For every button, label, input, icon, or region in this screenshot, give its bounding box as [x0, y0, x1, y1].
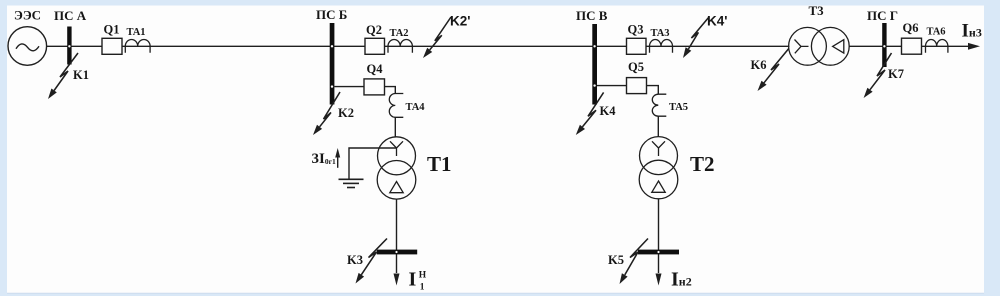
svg-text:TA5: TA5 — [669, 102, 688, 113]
svg-text:K4: K4 — [600, 104, 617, 118]
junction dot T2 load bar — [657, 251, 659, 253]
svg-text:TA4: TA4 — [406, 102, 426, 113]
load arrow IN3 head — [968, 43, 980, 50]
svg-text:Q3: Q3 — [628, 23, 644, 37]
breaker Q6 box — [902, 38, 922, 54]
junction dot bus B main line — [331, 45, 333, 47]
breaker Q4 box — [364, 79, 385, 95]
breaker Q1 box — [102, 38, 122, 54]
svg-text:T3: T3 — [809, 3, 825, 18]
source EES sine wave — [16, 44, 39, 51]
bus PS V bar — [592, 24, 597, 105]
wire T1 to load bar — [396, 199, 398, 273]
junction dot T1 load bar — [395, 251, 397, 253]
T2 delta symbol — [652, 181, 665, 192]
source EES circle — [8, 27, 47, 66]
svg-text:TA6: TA6 — [927, 27, 946, 38]
junction dot bus V branch — [593, 84, 595, 86]
current transformer TA2 — [388, 39, 412, 52]
wire T2 to load bar — [658, 199, 660, 273]
3I0g1 current arrow — [335, 148, 340, 168]
junction dot bus B branch — [331, 85, 333, 87]
current transformer TA5 — [652, 94, 666, 116]
wire Q3 to T3 (through TA3) — [646, 45, 790, 47]
svg-text:K3: K3 — [347, 253, 363, 267]
fault K3 lightning arrow — [356, 239, 388, 284]
wire Q4 to TA4 corner — [385, 87, 396, 94]
svg-text:ПС В: ПС В — [576, 8, 608, 23]
svg-text:K1: K1 — [73, 68, 89, 82]
breaker Q3 box — [627, 38, 647, 54]
fault K6 lightning arrow — [758, 48, 790, 91]
load bus bar under T1 — [377, 250, 418, 255]
junction dot bus A — [68, 45, 70, 47]
wire bus B to Q4 — [334, 86, 364, 88]
svg-text:Q4: Q4 — [367, 62, 384, 76]
transformer T3 secondary circle — [811, 27, 849, 65]
svg-text:K7: K7 — [888, 67, 904, 81]
transformer T2 HV winding circle — [640, 137, 678, 175]
transformer T3 primary circle — [789, 27, 827, 65]
load bus bar under T2 — [638, 250, 679, 255]
svg-text:TA1: TA1 — [127, 27, 146, 38]
wire Q1 to Q2 (through TA1 and bus B) — [122, 45, 365, 47]
fault K7 lightning arrow — [864, 53, 892, 98]
bus PS B bar — [330, 23, 335, 105]
T3 delta symbol — [833, 40, 844, 53]
wire bus V to Q5 — [597, 85, 627, 87]
load arrow IN2 — [656, 274, 662, 286]
svg-text:Q5: Q5 — [628, 60, 644, 74]
current transformer TA1 — [125, 39, 150, 52]
transformer T2 LV winding circle — [639, 160, 678, 199]
svg-text:ПС Г: ПС Г — [867, 8, 898, 23]
wire TA5 to T2 — [657, 116, 659, 137]
T2 wye symbol — [652, 141, 665, 156]
svg-text:T2: T2 — [690, 152, 715, 176]
svg-text:K2: K2 — [338, 106, 354, 120]
svg-text:K2': K2' — [450, 14, 470, 29]
transformer T1 LV winding circle — [377, 161, 416, 200]
svg-text:K6: K6 — [751, 58, 767, 72]
fault K4' lightning arrow — [683, 17, 709, 58]
fault K2' lightning arrow — [423, 17, 451, 58]
wire T3 to Q6 (through bus G) — [849, 45, 902, 47]
current transformer TA4 — [389, 94, 403, 118]
T3 wye symbol — [795, 40, 809, 54]
svg-text:Q2: Q2 — [366, 23, 382, 37]
svg-text:Q6: Q6 — [903, 21, 919, 35]
junction dot bus G — [883, 45, 885, 47]
svg-text:TA2: TA2 — [390, 28, 409, 39]
load arrow IN1 — [394, 274, 400, 286]
svg-text:K4': K4' — [707, 14, 727, 29]
svg-text:ЭЭС: ЭЭС — [14, 8, 41, 23]
svg-text:ПС А: ПС А — [54, 8, 87, 23]
svg-text:ПС Б: ПС Б — [316, 7, 347, 22]
fault K4 lightning arrow — [576, 92, 604, 135]
current transformer TA6 — [926, 39, 948, 52]
svg-text:K5: K5 — [608, 253, 624, 267]
wire T1 neutral to ground — [349, 148, 397, 179]
wire TA4 to T1 — [394, 117, 396, 137]
wire Q2 to Q3 (through TA2 and bus V) — [385, 45, 627, 47]
fault K5 lightning arrow — [620, 239, 649, 285]
wire Q5 to TA5 corner — [647, 86, 659, 95]
T1 delta symbol — [390, 182, 403, 193]
fault K1 lightning arrow — [48, 53, 78, 99]
transformer T1 HV winding circle — [378, 137, 416, 175]
wire Q6 to load arrow IN3 — [922, 45, 970, 47]
svg-text:TA3: TA3 — [651, 28, 670, 39]
bus PS G bar — [882, 23, 886, 67]
breaker Q2 box — [365, 38, 385, 54]
ground symbol — [339, 179, 364, 187]
breaker Q5 box — [627, 78, 647, 94]
junction dot bus V main line — [593, 45, 595, 47]
svg-text:Q1: Q1 — [104, 23, 120, 37]
T1 wye symbol — [390, 141, 403, 156]
svg-text:T1: T1 — [427, 152, 452, 176]
bus PS A bar — [67, 27, 71, 65]
fault K2 lightning arrow — [313, 92, 340, 135]
wire source to Q1 (through bus A) — [47, 45, 103, 47]
current transformer TA3 — [650, 40, 673, 53]
